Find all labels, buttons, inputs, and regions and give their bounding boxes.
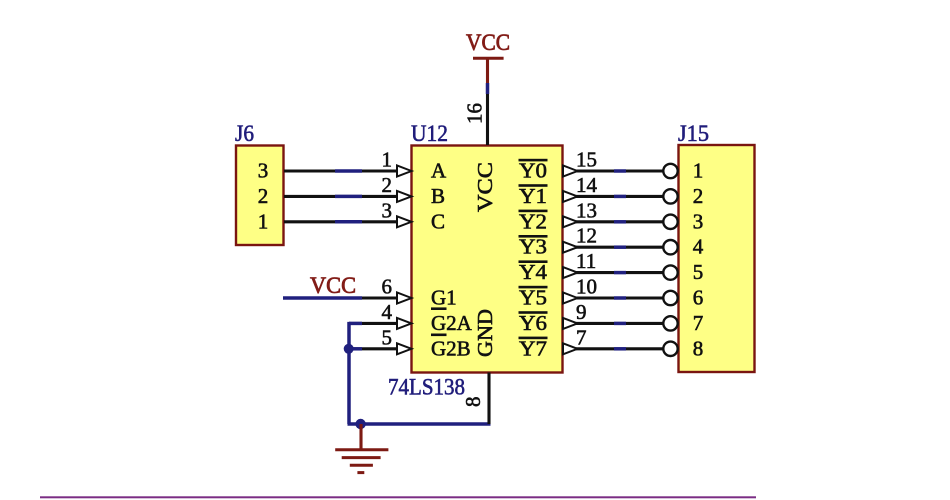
svg-text:2: 2: [382, 173, 393, 197]
svg-text:1: 1: [382, 148, 393, 172]
svg-text:VCC: VCC: [310, 273, 356, 298]
svg-text:Y5: Y5: [519, 286, 547, 310]
svg-text:7: 7: [693, 311, 704, 335]
svg-text:8: 8: [461, 397, 485, 408]
svg-text:Y2: Y2: [519, 209, 547, 233]
svg-text:4: 4: [693, 235, 704, 259]
svg-text:2: 2: [258, 184, 269, 208]
svg-text:9: 9: [576, 300, 587, 324]
svg-text:14: 14: [576, 173, 598, 197]
svg-text:2: 2: [693, 184, 704, 208]
svg-text:5: 5: [382, 325, 393, 349]
svg-text:3: 3: [258, 159, 269, 183]
svg-text:VCC: VCC: [473, 162, 497, 212]
svg-text:Y7: Y7: [519, 336, 547, 360]
svg-text:G2B: G2B: [431, 336, 471, 360]
svg-text:J6: J6: [235, 121, 254, 146]
svg-text:A: A: [431, 159, 447, 183]
svg-text:4: 4: [382, 300, 393, 324]
svg-text:Y0: Y0: [519, 159, 547, 183]
svg-text:15: 15: [576, 148, 597, 172]
svg-text:10: 10: [576, 275, 597, 299]
svg-text:16: 16: [463, 103, 487, 124]
svg-text:6: 6: [382, 275, 393, 299]
svg-text:U12: U12: [411, 121, 448, 146]
svg-text:11: 11: [576, 249, 596, 273]
svg-text:1: 1: [693, 159, 704, 183]
svg-text:Y4: Y4: [519, 260, 548, 284]
svg-text:12: 12: [576, 224, 597, 248]
svg-text:Y3: Y3: [519, 235, 547, 259]
svg-text:GND: GND: [473, 309, 497, 357]
svg-text:1: 1: [258, 209, 269, 233]
svg-text:G2A: G2A: [431, 311, 473, 335]
svg-text:J15: J15: [678, 121, 709, 146]
svg-text:6: 6: [693, 286, 704, 310]
svg-text:3: 3: [382, 198, 393, 222]
svg-text:VCC: VCC: [466, 30, 510, 55]
svg-text:5: 5: [693, 260, 704, 284]
svg-text:74LS138: 74LS138: [388, 374, 465, 399]
svg-text:C: C: [431, 209, 445, 233]
svg-text:B: B: [431, 184, 445, 208]
svg-text:Y6: Y6: [519, 311, 547, 335]
svg-text:G1: G1: [431, 286, 457, 310]
svg-text:Y1: Y1: [519, 184, 547, 208]
svg-text:8: 8: [693, 336, 704, 360]
svg-text:7: 7: [576, 325, 587, 349]
svg-text:13: 13: [576, 198, 597, 222]
svg-text:3: 3: [693, 209, 704, 233]
